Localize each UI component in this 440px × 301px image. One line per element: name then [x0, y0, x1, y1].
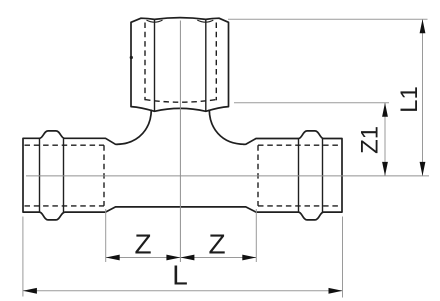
extension line Z left	[105, 209, 107, 262]
svg-text:Z: Z	[208, 228, 225, 259]
socket hidden lines right	[258, 145, 341, 206]
extension line L left	[22, 217, 24, 297]
vertical centerline	[179, 21, 181, 263]
bead tangent line left-2	[63, 138, 65, 212]
extension line L right	[342, 217, 344, 298]
extension line top (L1)	[228, 18, 428, 20]
arrow Z far-left	[106, 255, 120, 261]
arrow L1 bottom	[420, 162, 426, 176]
top chamfer arc right	[197, 20, 213, 22]
arrow L right	[329, 288, 343, 294]
svg-text:L1: L1	[396, 86, 423, 113]
hex flat edge right	[205, 20, 207, 112]
svg-text:Z1: Z1	[357, 126, 384, 154]
bead tangent line right-1	[298, 139, 300, 213]
extension line Z1	[234, 102, 389, 104]
dimension line L	[23, 290, 343, 292]
fillet left	[116, 110, 151, 145]
arrow Z1 top	[382, 103, 388, 117]
svg-text:Z: Z	[134, 228, 151, 259]
thread hidden line left	[144, 23, 146, 101]
thread bottom hidden arc	[145, 100, 216, 103]
arrow L left	[23, 288, 37, 294]
dimension line Z	[106, 257, 257, 259]
horizontal centerline	[26, 175, 429, 177]
dimension line Z1	[384, 103, 386, 176]
arrow Z center-right	[180, 255, 194, 261]
bead tangent line left-1	[39, 138, 41, 212]
fillet right	[209, 110, 245, 145]
ink dot on nut edge	[130, 56, 133, 59]
thread hidden line right	[215, 23, 217, 101]
hex nut silhouette	[131, 18, 229, 112]
tube body outline	[23, 131, 342, 220]
extension line Z right	[255, 209, 257, 262]
arrow Z far-right	[242, 255, 256, 261]
svg-text:L: L	[172, 259, 188, 290]
arrow L1 top	[420, 19, 426, 33]
arrow Z1 bottom	[382, 162, 388, 176]
top chamfer arc left	[147, 20, 163, 22]
bead tangent line right-2	[322, 139, 324, 213]
arrow Z center-left	[166, 255, 180, 261]
hex flat edge left	[154, 20, 156, 112]
socket hidden lines left	[25, 145, 105, 206]
dimension line L1	[422, 19, 424, 176]
